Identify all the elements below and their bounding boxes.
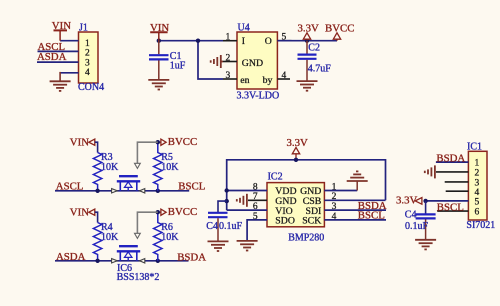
svg-text:C4: C4 — [206, 221, 218, 232]
svg-text:by: by — [263, 75, 273, 86]
ground at J1 pin4 — [50, 81, 71, 91]
svg-text:4: 4 — [85, 68, 90, 78]
ground at C4 (BMP280) — [208, 241, 229, 251]
wire J1 pin1 — [60, 40, 78, 42]
svg-text:3: 3 — [332, 202, 337, 212]
node junction C4 branch — [225, 199, 229, 203]
pin 2 U4 — [223, 61, 237, 63]
svg-text:C4: C4 — [405, 210, 417, 221]
svg-text:2: 2 — [332, 192, 337, 202]
svg-text:GND: GND — [242, 58, 263, 69]
resistor R3 — [93, 152, 119, 191]
svg-text:0.1uF: 0.1uF — [405, 221, 429, 232]
pin 8 IC2 — [227, 190, 267, 192]
svg-text:1: 1 — [226, 33, 231, 43]
svg-text:ASDA: ASDA — [37, 51, 67, 63]
capacitor C4 (SI7021) — [405, 201, 436, 239]
pin 7 IC2 with sideways ground — [248, 199, 267, 201]
svg-text:2: 2 — [85, 49, 90, 59]
svg-text:en: en — [240, 75, 249, 86]
ground at U4 pin2 (sideways) — [211, 55, 223, 68]
pin 3 IC1 stub — [445, 181, 469, 183]
pin 2 IC1 with sideways ground — [436, 171, 468, 173]
ground at C2 — [297, 81, 318, 91]
node junction rail/3.3V — [294, 158, 298, 162]
pin 1 U4 — [223, 40, 237, 42]
svg-text:10K: 10K — [161, 232, 179, 243]
pin 5 U4 — [277, 40, 291, 42]
node junction C1/VIN — [157, 39, 161, 43]
resistor R6 — [154, 212, 180, 261]
power VIN at C1 — [150, 22, 169, 41]
svg-text:3.3V: 3.3V — [396, 195, 417, 207]
svg-text:SDO: SDO — [275, 216, 295, 227]
svg-text:J1: J1 — [79, 22, 88, 33]
svg-text:3: 3 — [85, 58, 90, 68]
svg-text:C2: C2 — [308, 42, 320, 53]
svg-text:1: 1 — [475, 159, 480, 169]
pin 3 U4 — [223, 78, 237, 80]
svg-text:BMP280: BMP280 — [288, 233, 324, 244]
svg-text:3.3V-LDO: 3.3V-LDO — [237, 90, 280, 101]
svg-text:BVCC: BVCC — [325, 23, 354, 35]
svg-text:10K: 10K — [161, 162, 179, 173]
svg-text:BSCL: BSCL — [437, 201, 464, 213]
svg-text:2: 2 — [226, 53, 231, 63]
svg-text:3.3V: 3.3V — [298, 23, 319, 35]
ground at C4 (SI7021) — [415, 240, 436, 250]
wire ASDA line — [55, 260, 189, 262]
capacitor C2 — [298, 41, 332, 81]
svg-text:BSCL: BSCL — [358, 210, 385, 222]
wire VIN rail to U4 pin1 — [159, 40, 223, 42]
node junction BVCC/gate — [156, 140, 160, 144]
power BVCC (shifter1) — [158, 136, 197, 148]
pin 4 IC2 (SCK) BSCL — [324, 219, 386, 221]
svg-text:10K: 10K — [101, 162, 119, 173]
power 3.3V (top) — [298, 23, 319, 40]
resistor R4 — [93, 222, 119, 261]
svg-text:VIN: VIN — [70, 136, 89, 148]
svg-text:I: I — [242, 36, 245, 47]
svg-text:7: 7 — [253, 192, 258, 202]
svg-text:IC1: IC1 — [467, 141, 482, 152]
svg-text:U4: U4 — [238, 22, 250, 33]
wire ASCL to J1 pin2 — [38, 50, 79, 52]
power VIN (shifter1) — [70, 136, 98, 152]
ground at C1 — [148, 80, 169, 90]
svg-text:1: 1 — [332, 182, 337, 192]
svg-text:VIN: VIN — [70, 207, 89, 219]
wire gate Q2 (gray) — [137, 212, 157, 233]
svg-text:ASDA: ASDA — [56, 251, 86, 263]
svg-text:CON4: CON4 — [78, 82, 104, 93]
node junction R5/BSCL — [156, 189, 160, 193]
svg-text:O: O — [265, 36, 272, 47]
node junction pin1/pin3 — [196, 39, 200, 43]
wire U4 pin3 branch — [198, 41, 223, 79]
node junction 3.3V/C4 — [423, 199, 427, 203]
pin 4 IC1 stub — [446, 190, 469, 192]
node junction BVCC2/gate — [156, 210, 160, 214]
power 3.3V (rail) — [287, 137, 308, 160]
chip IC1 SI7021 — [466, 141, 495, 231]
regulator U4 — [237, 22, 280, 101]
svg-text:BVCC: BVCC — [168, 136, 197, 148]
svg-text:3.3V: 3.3V — [287, 137, 308, 149]
svg-text:1: 1 — [85, 39, 90, 49]
svg-text:ASCL: ASCL — [56, 181, 84, 193]
svg-text:4: 4 — [475, 188, 480, 198]
wire ASDA to J1 pin3 — [37, 61, 79, 63]
svg-text:BVCC: BVCC — [168, 206, 197, 218]
svg-text:6: 6 — [253, 202, 258, 212]
wire U4 pin5 to BVCC — [277, 40, 337, 42]
pin 5 IC2 to ground — [247, 220, 267, 241]
svg-text:SCK: SCK — [302, 216, 321, 227]
connector J1 — [78, 22, 104, 93]
pin 1 IC2 to ground — [324, 190, 357, 192]
node junction 3.3V/C2 — [305, 39, 309, 43]
node junction R4/ASDA — [95, 259, 99, 263]
wire 3.3V rail — [227, 160, 386, 210]
ground at IC1 pin2 (sideways) — [425, 165, 435, 178]
svg-text:8: 8 — [253, 182, 258, 192]
svg-text:3: 3 — [475, 178, 480, 188]
node junction VDD — [225, 188, 229, 192]
node junction R6/BSDA — [156, 259, 160, 263]
pin 1 IC1 BSDA — [436, 161, 469, 163]
ground at IC2 pin1 (upside) — [347, 171, 368, 190]
power VIN at J1 — [52, 20, 71, 41]
svg-text:5: 5 — [475, 198, 480, 208]
chip IC2 BMP280 — [267, 171, 324, 243]
svg-text:0.1uF: 0.1uF — [219, 221, 243, 232]
wire J1 pin4 — [60, 72, 78, 74]
transistor Q2 (BSS138 half) IC6 — [112, 233, 160, 283]
pin 5 IC1 to 3.3V — [426, 200, 469, 202]
svg-text:SI7021: SI7021 — [466, 220, 495, 231]
wire C4 branch — [218, 201, 227, 212]
node junction R3/ASCL — [95, 189, 99, 193]
svg-text:IC2: IC2 — [268, 171, 283, 182]
svg-text:5: 5 — [253, 212, 258, 222]
pin 6 IC1 BSCL stub — [437, 210, 468, 212]
pin 4 U4 — [277, 78, 290, 80]
ground at IC2 pin5 — [237, 241, 258, 251]
power 3.3V (IC1) — [396, 195, 422, 207]
pin 2 IC2 (CSB) — [324, 199, 385, 201]
svg-text:BSDA: BSDA — [177, 252, 206, 264]
svg-text:BSCL: BSCL — [178, 181, 205, 193]
wire gate Q1 (gray) — [137, 142, 157, 163]
pin 3 IC2 (SDI) BSDA — [324, 209, 386, 211]
wire ASCL line — [55, 190, 189, 192]
resistor R5 — [154, 142, 180, 191]
power BVCC (shifter2) — [158, 206, 197, 218]
capacitor C4 (BMP280) — [206, 213, 242, 241]
svg-text:BSS138*2: BSS138*2 — [117, 272, 160, 283]
power VIN (shifter2) — [70, 207, 98, 223]
ground at IC2 pin7 (sideways) — [237, 194, 247, 207]
capacitor C1 — [149, 41, 186, 80]
svg-text:10K: 10K — [101, 232, 119, 243]
svg-text:2: 2 — [475, 168, 480, 178]
transistor Q1 (BSS138 half) — [112, 163, 145, 193]
svg-text:6: 6 — [475, 208, 480, 218]
svg-text:3: 3 — [226, 71, 231, 81]
power BVCC (top) — [325, 23, 354, 41]
svg-text:1uF: 1uF — [170, 61, 186, 72]
pin 6 IC2 — [227, 209, 267, 211]
svg-text:4: 4 — [332, 212, 337, 222]
svg-text:4.7uF: 4.7uF — [308, 64, 332, 75]
svg-text:BSDA: BSDA — [436, 152, 465, 164]
svg-text:4: 4 — [282, 71, 287, 81]
